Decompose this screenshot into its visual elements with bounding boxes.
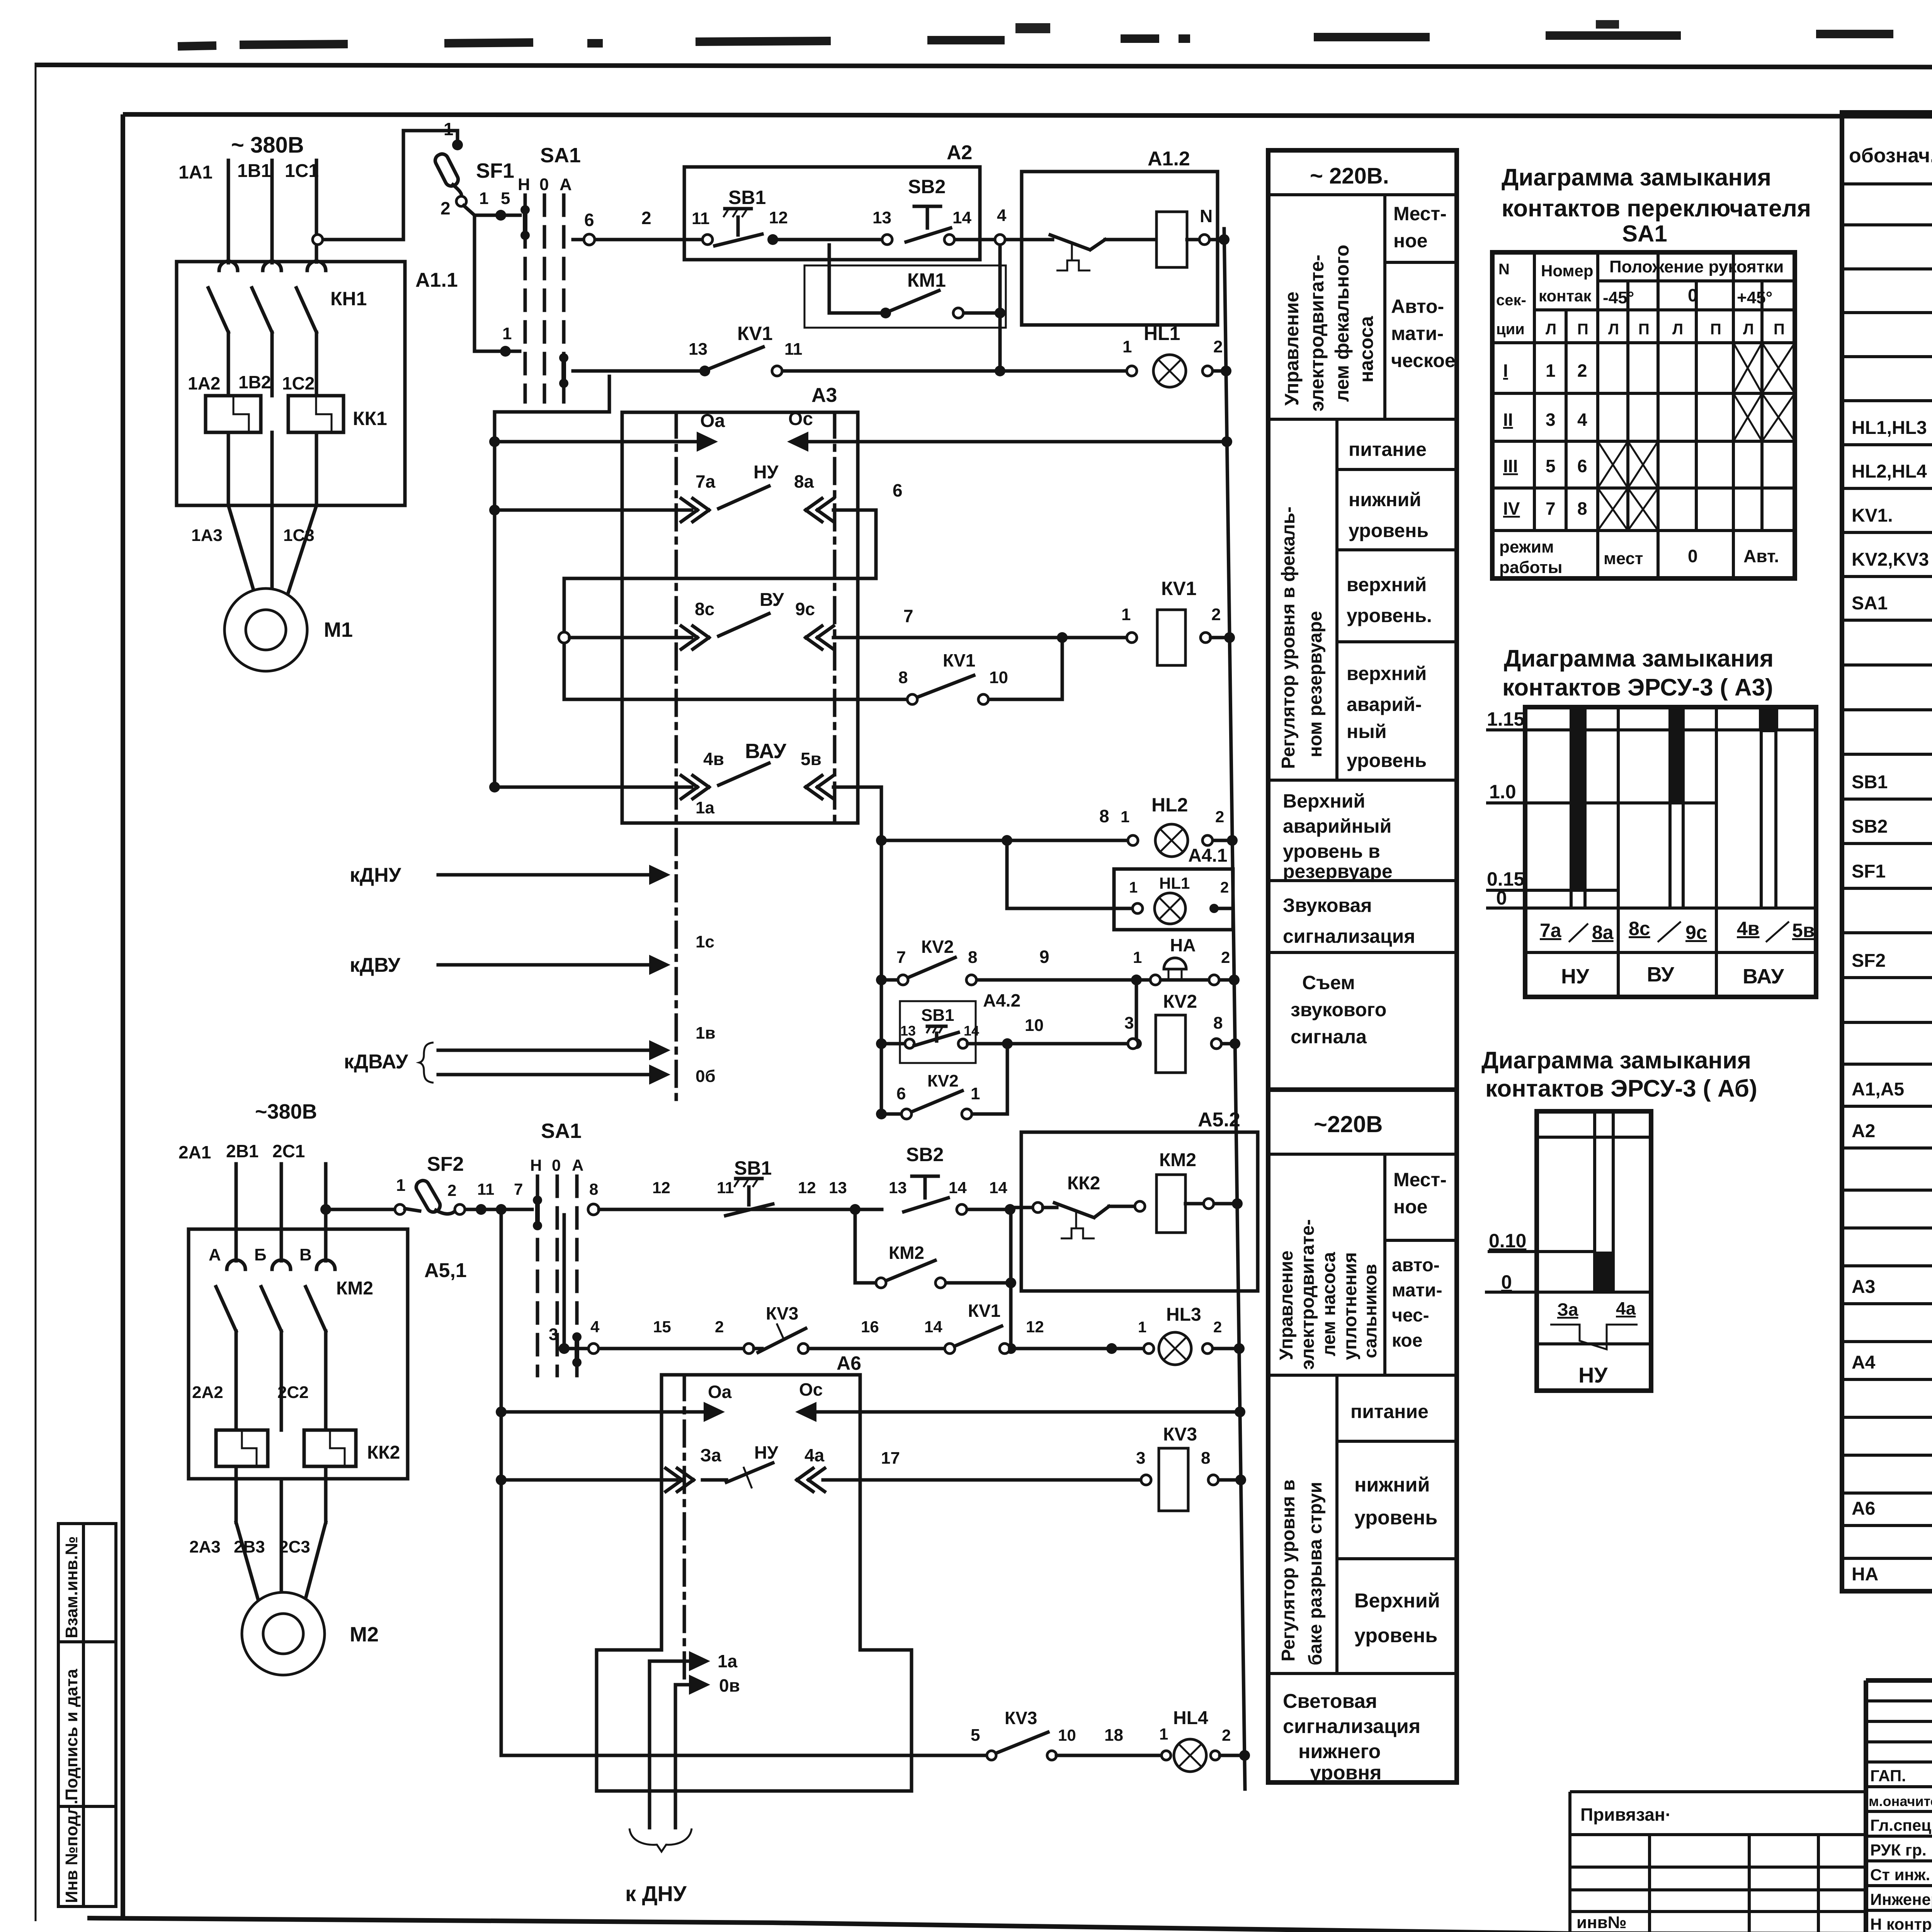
svg-text:IV: IV <box>1503 498 1520 519</box>
supply rail down to A6 and HL4 row <box>496 1204 507 1215</box>
svg-text:~ 220В.: ~ 220В. <box>1310 163 1389 189</box>
section регулятор уровня в баке разрыва струи <box>1268 1672 1457 1675</box>
svg-text:7: 7 <box>514 1180 523 1198</box>
svg-text:А2: А2 <box>1852 1121 1875 1141</box>
svg-text:НУ: НУ <box>1561 965 1590 988</box>
svg-text:М1: М1 <box>324 618 353 641</box>
sheet outer border left <box>35 63 37 1921</box>
svg-text:электродвигате-: электродвигате- <box>1306 255 1328 412</box>
svg-text:1: 1 <box>1546 361 1556 381</box>
svg-text:уровень: уровень <box>1347 750 1427 771</box>
svg-text:+45°: +45° <box>1737 288 1772 307</box>
svg-text:НL3: НL3 <box>1166 1304 1201 1325</box>
svg-text:уровень: уровень <box>1354 1624 1437 1647</box>
level regulator box A3 <box>622 412 858 823</box>
svg-text:12: 12 <box>769 208 788 227</box>
svg-text:1: 1 <box>971 1084 980 1103</box>
link bell row to KV2 coil row <box>1135 980 1138 1044</box>
svg-text:П: П <box>1577 321 1588 338</box>
table row 4 <box>1842 355 1932 358</box>
svg-text:Л: Л <box>1672 321 1683 338</box>
svg-text:-45°: -45° <box>1603 288 1634 307</box>
svg-text:НL1: НL1 <box>1144 323 1180 344</box>
svg-text:10: 10 <box>1058 1726 1076 1744</box>
svg-text:1С1: 1С1 <box>285 161 319 181</box>
svg-text:Б: Б <box>254 1245 267 1264</box>
svg-text:9: 9 <box>1039 947 1049 967</box>
svg-text:0: 0 <box>1688 285 1698 305</box>
svg-text:КV1: КV1 <box>943 650 975 670</box>
svg-text:2: 2 <box>440 198 451 218</box>
table row 14 <box>1842 798 1932 801</box>
svg-text:Диаграмма замыкания: Диаграмма замыкания <box>1481 1047 1751 1074</box>
svg-text:П: П <box>1710 321 1721 338</box>
svg-text:Регулятор уровня в: Регулятор уровня в <box>1278 1480 1299 1662</box>
svg-text:ное: ное <box>1393 1196 1428 1218</box>
KV1 self-hold contact 8-10 <box>564 698 907 701</box>
svg-text:Ос: Ос <box>799 1379 823 1400</box>
svg-text:Номер: Номер <box>1541 262 1594 280</box>
table row 17 <box>1842 931 1932 934</box>
svg-text:18: 18 <box>1104 1726 1123 1745</box>
svg-text:режим: режим <box>1499 537 1554 556</box>
brace to DNU <box>629 1828 692 1852</box>
row VAU contact 4v-5v <box>489 782 500 793</box>
signal lamp HL4 <box>1174 1739 1206 1772</box>
svg-text:7а: 7а <box>696 471 716 492</box>
svg-text:2: 2 <box>1213 1319 1222 1336</box>
svg-text:верхний: верхний <box>1347 663 1427 684</box>
svg-text:10: 10 <box>989 668 1008 687</box>
svg-text:1А2: 1А2 <box>188 373 220 393</box>
drawing frame bottom (skewed) <box>87 1918 1932 1932</box>
motor M2 <box>242 1592 325 1675</box>
svg-text:SB2: SB2 <box>1852 816 1888 837</box>
svg-text:9с: 9с <box>795 599 815 619</box>
table row 13 <box>1842 753 1932 756</box>
svg-text:15: 15 <box>653 1318 671 1336</box>
svg-text:Световая: Световая <box>1283 1690 1377 1713</box>
svg-text:HL1,HL3: HL1,HL3 <box>1852 418 1927 438</box>
table row 27 <box>1842 1340 1932 1343</box>
upper function table <box>1268 150 1457 1090</box>
table row 33 <box>1842 1557 1932 1560</box>
link VAU down to HL2 row <box>880 787 883 840</box>
svg-text:7: 7 <box>1546 498 1556 519</box>
svg-text:0.10: 0.10 <box>1489 1230 1526 1252</box>
start button SB2 lower <box>912 1175 938 1178</box>
equipment list table <box>1842 112 1932 1591</box>
svg-text:обознач.: обознач. <box>1849 145 1932 167</box>
svg-text:М2: М2 <box>350 1623 379 1646</box>
svg-text:SB1: SB1 <box>734 1157 772 1179</box>
svg-text:I: I <box>1503 361 1508 381</box>
svg-text:КК2: КК2 <box>367 1442 400 1463</box>
table row 24 <box>1842 1226 1932 1230</box>
table row 8 <box>1842 531 1932 534</box>
svg-text:2: 2 <box>1222 1726 1231 1744</box>
svg-text:сигнала: сигнала <box>1291 1026 1367 1048</box>
table row 29 <box>1842 1416 1932 1419</box>
svg-text:11: 11 <box>717 1179 734 1197</box>
svg-text:1с: 1с <box>696 932 714 951</box>
table row 31 <box>1842 1492 1932 1495</box>
drawing frame top <box>123 114 1932 117</box>
svg-text:уплотнения: уплотнения <box>1340 1252 1361 1360</box>
title block <box>1570 1680 1932 1932</box>
level regulator box A6 with step <box>597 1375 912 1791</box>
svg-text:А3: А3 <box>1852 1277 1875 1297</box>
svg-text:ГАП.: ГАП. <box>1870 1767 1906 1785</box>
table row 2 <box>1842 267 1932 270</box>
table row 20 <box>1842 1063 1932 1066</box>
table row 32 <box>1842 1524 1932 1527</box>
table row 3 <box>1842 311 1932 314</box>
svg-text:8а: 8а <box>1592 922 1614 943</box>
svg-text:8: 8 <box>968 948 977 967</box>
svg-text:12: 12 <box>652 1179 670 1197</box>
svg-text:5в: 5в <box>801 749 821 769</box>
svg-text:5в: 5в <box>1792 920 1815 941</box>
contactor coil KM1 <box>1156 212 1187 267</box>
svg-text:аварийный: аварийный <box>1283 815 1391 837</box>
svg-text:А: А <box>209 1245 221 1264</box>
svg-text:1: 1 <box>1121 808 1129 826</box>
svg-text:1: 1 <box>1138 1319 1146 1336</box>
svg-text:П: П <box>1638 321 1650 338</box>
svg-text:3: 3 <box>1546 410 1556 430</box>
svg-text:10: 10 <box>1025 1016 1044 1035</box>
svg-text:За: За <box>1557 1299 1578 1320</box>
svg-text:SF2: SF2 <box>1852 951 1886 971</box>
svg-text:А5,1: А5,1 <box>424 1259 467 1282</box>
svg-text:1: 1 <box>1121 605 1131 624</box>
signal lamp HL2 <box>1155 824 1188 857</box>
svg-text:0: 0 <box>1501 1271 1512 1293</box>
svg-text:9с: 9с <box>1685 922 1707 943</box>
svg-text:1С2: 1С2 <box>282 373 315 393</box>
svg-text:13: 13 <box>900 1023 916 1039</box>
svg-text:1: 1 <box>1133 948 1142 966</box>
wire down to contact 1 <box>473 215 476 351</box>
small bottom-left table <box>1648 1835 1651 1932</box>
svg-text:1С3: 1С3 <box>283 526 315 545</box>
svg-text:1: 1 <box>1159 1725 1168 1743</box>
supply rail from node5 to level box A3 <box>608 376 611 412</box>
svg-text:работы: работы <box>1499 558 1562 577</box>
svg-text:8: 8 <box>898 668 908 687</box>
svg-text:2С3: 2С3 <box>279 1537 310 1556</box>
svg-text:0: 0 <box>1496 887 1507 909</box>
svg-text:5: 5 <box>1546 456 1556 476</box>
svg-text:SA1: SA1 <box>541 1119 582 1143</box>
thermal relay KK2 elements <box>216 1430 268 1466</box>
svg-text:Диаграмма замыкания: Диаграмма замыкания <box>1502 164 1771 191</box>
ERSU-3 (A3) chart <box>1486 707 1816 997</box>
svg-text:2С2: 2С2 <box>277 1383 309 1402</box>
cell верхний аварийный уровень в резервуаре <box>1268 879 1457 882</box>
link SA1 lower to HL3 row <box>563 1215 566 1343</box>
bar NU black <box>1570 707 1587 889</box>
contactor KM1 main contacts KH1 <box>219 261 238 270</box>
svg-text:А3: А3 <box>811 384 837 406</box>
table row 25 <box>1842 1264 1932 1267</box>
section управление эл.двиг насоса уплотнения <box>1268 1374 1457 1377</box>
button box A4.2 with SB1 <box>900 1001 976 1063</box>
svg-text:Н: Н <box>530 1156 542 1174</box>
stop button SB1 lower <box>736 1177 762 1180</box>
svg-text:А2: А2 <box>947 141 972 164</box>
svg-text:SB1: SB1 <box>1852 772 1888 793</box>
svg-text:кДВУ: кДВУ <box>350 954 401 976</box>
scan noise dashes top <box>178 30 1932 46</box>
scan smudges right edge <box>1015 20 1932 1785</box>
svg-text:лем фекального: лем фекального <box>1331 245 1353 402</box>
relay coil KV1 <box>1157 610 1185 665</box>
control tap from phase 1C1 <box>313 235 323 245</box>
svg-text:1В1: 1В1 <box>237 161 271 181</box>
drawing frame left <box>121 114 125 1920</box>
svg-text:12: 12 <box>1026 1318 1044 1336</box>
svg-text:0: 0 <box>1688 546 1698 566</box>
svg-text:А: А <box>572 1156 583 1174</box>
svg-text:А6: А6 <box>1852 1498 1875 1519</box>
svg-text:ВАУ: ВАУ <box>1743 965 1784 988</box>
svg-text:контактов ЭРСУ-3 ( Аб): контактов ЭРСУ-3 ( Аб) <box>1485 1075 1757 1102</box>
svg-text:КК1: КК1 <box>353 408 387 429</box>
button SB1 in A4.2 <box>876 1038 887 1049</box>
svg-text:4а: 4а <box>804 1445 825 1465</box>
svg-text:2: 2 <box>1215 808 1224 826</box>
wire node 4 down to HL1 row <box>998 245 1002 371</box>
SA1 diagram table <box>1492 252 1795 578</box>
contactor box A5.1 <box>189 1229 408 1479</box>
cell ~220V lower <box>1268 1153 1457 1156</box>
svg-text:13: 13 <box>889 1179 907 1197</box>
table row 1 <box>1842 223 1932 226</box>
svg-text:2В1: 2В1 <box>226 1141 259 1161</box>
svg-text:Подпись и дата: Подпись и дата <box>62 1669 81 1801</box>
svg-text:Ст инж.: Ст инж. <box>1870 1866 1930 1884</box>
svg-text:кДВАУ: кДВАУ <box>344 1051 408 1073</box>
table row 18 <box>1842 976 1932 979</box>
table row 11 <box>1842 663 1932 667</box>
relay coil KV2 <box>1156 1015 1185 1073</box>
svg-text:1В2: 1В2 <box>238 372 271 392</box>
svg-text:КV1: КV1 <box>737 323 773 344</box>
svg-text:2: 2 <box>1211 605 1221 624</box>
table row 30 <box>1842 1454 1932 1457</box>
svg-text:нижний: нижний <box>1349 489 1421 510</box>
lower function table <box>1268 1090 1457 1784</box>
phase line 1B1 <box>270 160 274 263</box>
svg-text:Регулятор уровня в фекаль-: Регулятор уровня в фекаль- <box>1278 507 1299 769</box>
svg-text:А1.2: А1.2 <box>1148 148 1190 170</box>
phase line 1C1 <box>315 160 318 240</box>
svg-text:КМ2: КМ2 <box>336 1278 373 1299</box>
svg-text:инв№: инв№ <box>1577 1913 1627 1932</box>
svg-text:Положение рукоятки: Положение рукоятки <box>1609 257 1784 276</box>
svg-text:14: 14 <box>949 1179 967 1197</box>
svg-text:сигнализация: сигнализация <box>1283 925 1415 947</box>
svg-text:Авто-: Авто- <box>1391 296 1444 317</box>
left stamp column boxes <box>58 1524 116 1906</box>
svg-text:7: 7 <box>903 606 913 626</box>
svg-text:А4.1: А4.1 <box>1188 845 1227 866</box>
svg-text:Оа: Оа <box>700 411 725 431</box>
svg-text:SA1: SA1 <box>1852 593 1888 614</box>
svg-text:4в: 4в <box>703 749 724 769</box>
phase line 1A1 <box>227 160 230 263</box>
phase line 2B1 <box>280 1164 283 1229</box>
contact NU NC in A6 <box>702 1478 726 1482</box>
X marks -45 rows III,IV <box>1598 441 1628 488</box>
phase line 2C1 <box>324 1164 328 1229</box>
svg-text:П: П <box>1774 321 1785 338</box>
svg-text:14: 14 <box>989 1179 1007 1197</box>
svg-text:А1.1: А1.1 <box>415 269 458 291</box>
svg-text:2: 2 <box>1577 361 1587 381</box>
table row 16 <box>1842 887 1932 890</box>
svg-text:КV1: КV1 <box>1161 578 1197 599</box>
svg-text:N: N <box>1200 206 1213 226</box>
svg-text:3: 3 <box>1136 1449 1145 1468</box>
svg-text:сигнализация: сигнализация <box>1283 1715 1420 1738</box>
phase line 2A1 <box>235 1164 238 1229</box>
svg-text:4: 4 <box>1577 410 1587 430</box>
svg-text:ВУ: ВУ <box>1647 963 1675 986</box>
svg-text:Инженер: Инженер <box>1870 1890 1932 1908</box>
svg-text:SA1: SA1 <box>540 144 581 167</box>
svg-text:нижний: нижний <box>1354 1474 1430 1496</box>
svg-text:SA1: SA1 <box>1622 221 1667 247</box>
svg-text:8: 8 <box>1577 498 1587 519</box>
thermal contact KK2 in A5.2 <box>1033 1202 1043 1213</box>
svg-text:8: 8 <box>589 1180 598 1198</box>
svg-text:Авт.: Авт. <box>1743 546 1779 566</box>
starter assembly box A5.2 <box>1021 1132 1258 1291</box>
svg-text:ции: ции <box>1496 321 1525 338</box>
svg-text:2: 2 <box>715 1318 724 1336</box>
black bar NU a6 <box>1594 1252 1614 1292</box>
svg-text:мати-: мати- <box>1391 323 1444 344</box>
svg-text:Н: Н <box>518 175 530 194</box>
circuit breaker SF2 <box>414 1178 442 1214</box>
svg-text:Гл.спец.: Гл.спец. <box>1870 1816 1932 1834</box>
svg-text:11: 11 <box>784 340 803 359</box>
cell звуковая сигнализация <box>1268 951 1457 954</box>
svg-text:5: 5 <box>971 1726 980 1745</box>
svg-text:3: 3 <box>549 1325 558 1344</box>
X marks +45 rows I,II <box>1733 343 1762 393</box>
svg-text:авто-: авто- <box>1392 1255 1440 1276</box>
svg-text:1А1: 1А1 <box>179 162 213 183</box>
table row 7 <box>1842 487 1932 490</box>
svg-text:РУК гр.: РУК гр. <box>1870 1841 1927 1859</box>
svg-text:чес-: чес- <box>1392 1305 1429 1326</box>
svg-text:КМ2: КМ2 <box>1159 1150 1196 1170</box>
electrode line L1 A3 <box>675 412 678 1101</box>
section управление эл.двиг фек насоса <box>1268 418 1457 421</box>
svg-text:1в: 1в <box>696 1024 716 1043</box>
svg-text:2: 2 <box>447 1181 456 1199</box>
SA1 contact row2 pos A <box>559 353 568 362</box>
svg-text:1А3: 1А3 <box>191 526 223 545</box>
svg-text:КV2: КV2 <box>927 1071 959 1090</box>
svg-text:В: В <box>299 1245 312 1264</box>
svg-text:II: II <box>1503 410 1513 430</box>
svg-text:Диаграмма замыкания: Диаграмма замыкания <box>1504 645 1774 672</box>
table row 10 <box>1842 619 1932 622</box>
svg-text:Инв №подл.: Инв №подл. <box>62 1799 81 1903</box>
svg-text:2: 2 <box>1213 337 1223 356</box>
row VU contact 8c-9c <box>559 632 570 643</box>
svg-text:Оа: Оа <box>708 1382 732 1402</box>
svg-text:Верхний: Верхний <box>1354 1590 1440 1612</box>
svg-text:8: 8 <box>1213 1014 1223 1032</box>
svg-text:1а: 1а <box>718 1651 738 1671</box>
svg-text:КV3: КV3 <box>1005 1708 1037 1728</box>
sheet outer border top (broken scan line) <box>36 65 1932 68</box>
control post box A2 <box>684 167 980 260</box>
signal lamp HL1 <box>1153 355 1186 387</box>
link 14-14 down to HL3 row <box>1009 1212 1013 1349</box>
contactor coil KM2 <box>1156 1175 1185 1233</box>
svg-text:III: III <box>1503 456 1518 476</box>
svg-text:А1,А5: А1,А5 <box>1852 1079 1904 1100</box>
svg-text:~220В: ~220В <box>1314 1111 1383 1137</box>
table row 28 <box>1842 1378 1932 1381</box>
svg-text:SB1: SB1 <box>728 187 766 208</box>
table row 23 <box>1842 1189 1932 1192</box>
relay contact KV1 NO lower <box>945 1344 955 1354</box>
svg-text:Управление: Управление <box>1281 292 1303 406</box>
relay contact KV3 NC <box>744 1344 754 1354</box>
circuit breaker SF1 <box>433 152 460 188</box>
electrode line A6 <box>683 1375 686 1685</box>
svg-text:Ос: Ос <box>788 409 813 429</box>
svg-text:2А1: 2А1 <box>179 1142 211 1162</box>
svg-text:0б: 0б <box>696 1067 716 1086</box>
svg-text:13: 13 <box>829 1179 847 1197</box>
svg-text:1: 1 <box>479 189 488 208</box>
svg-text:КV3: КV3 <box>766 1303 798 1323</box>
row SB1 SB2 to A5.2 <box>588 1204 599 1215</box>
svg-text:резервуаре: резервуаре <box>1283 861 1393 882</box>
signal lamp HL3 <box>1159 1332 1191 1365</box>
row Oa Oc supply arrows A3 <box>489 436 500 447</box>
svg-text:1.15: 1.15 <box>1487 708 1524 730</box>
svg-text:НУ: НУ <box>754 1442 779 1463</box>
table row 22 <box>1842 1146 1932 1150</box>
svg-text:ВАУ: ВАУ <box>745 740 787 763</box>
svg-text:~ 380В: ~ 380В <box>231 133 304 158</box>
svg-text:Съем: Съем <box>1302 972 1355 993</box>
svg-text:4в: 4в <box>1737 918 1760 939</box>
svg-text:4: 4 <box>590 1318 600 1336</box>
svg-text:SB1: SB1 <box>921 1006 954 1025</box>
svg-text:6: 6 <box>893 480 903 500</box>
svg-text:0.15: 0.15 <box>1487 868 1524 890</box>
svg-text:16: 16 <box>861 1318 879 1336</box>
svg-text:НА: НА <box>1170 935 1196 955</box>
svg-text:Л: Л <box>1546 321 1556 338</box>
row NU contact 7a-8a <box>489 505 500 515</box>
row SA1-KV3-KV1 to lamp HL3 <box>559 1343 570 1354</box>
svg-text:контак: контак <box>1539 287 1592 305</box>
svg-text:КV1: КV1 <box>968 1301 1000 1321</box>
svg-text:верхний: верхний <box>1347 574 1427 595</box>
